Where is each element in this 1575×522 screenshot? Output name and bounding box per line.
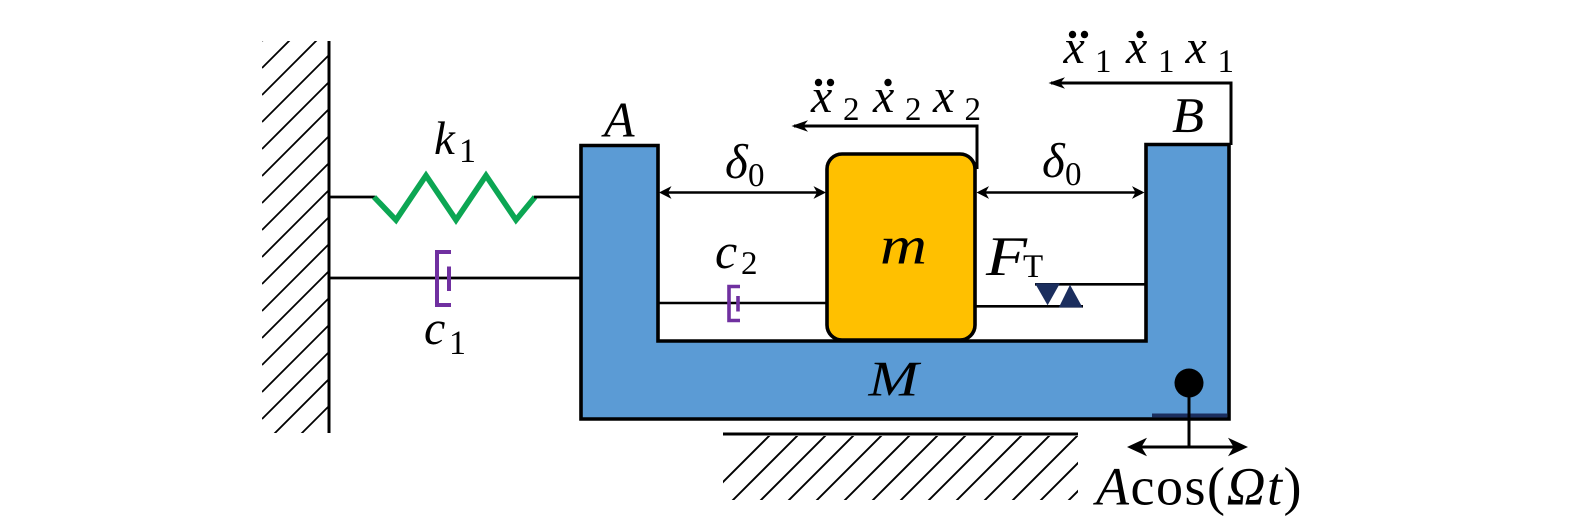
svg-text:m: m [880, 216, 927, 276]
wall hatching (left fixed wall) [262, 0, 342, 500]
svg-text:2: 2 [965, 92, 982, 128]
svg-text:δ: δ [1042, 133, 1066, 188]
svg-text:x: x [932, 70, 954, 123]
excitation double arrow [1132, 446, 1243, 449]
svg-text:0: 0 [1065, 157, 1082, 193]
svg-text:2: 2 [905, 92, 922, 128]
spring k1 [374, 176, 535, 221]
wire wall A inner to damper c2 to mass [658, 302, 827, 305]
axis x2 arrow [794, 126, 977, 169]
svg-text:x: x [1125, 21, 1147, 74]
wire from spring to wall A [534, 196, 582, 199]
right gap arrow delta0 [979, 191, 1142, 194]
ground hatching [700, 431, 1194, 505]
svg-text:Acos(Ωt): Acos(Ωt) [1093, 457, 1303, 517]
svg-text:1: 1 [1158, 44, 1175, 80]
svg-text:x: x [1185, 21, 1207, 74]
svg-text:x: x [810, 70, 832, 123]
friction upper wire to wall B [1035, 283, 1146, 286]
navy line on base bottom right [1152, 414, 1227, 418]
damper c2 [729, 287, 740, 321]
svg-text:1: 1 [1095, 44, 1112, 80]
svg-text:k: k [434, 113, 456, 165]
svg-text:c: c [715, 223, 737, 279]
svg-text:0: 0 [748, 158, 765, 194]
svg-text:2: 2 [843, 92, 860, 128]
axis x1 arrow [1051, 83, 1231, 145]
svg-text:1: 1 [449, 325, 466, 362]
friction lower wire from mass [975, 305, 1083, 308]
svg-text:F: F [985, 226, 1028, 288]
svg-text:1: 1 [459, 133, 476, 170]
friction down triangle [1035, 283, 1060, 305]
wire from wall to spring [329, 196, 375, 199]
ground line [723, 433, 1078, 436]
svg-text:A: A [601, 92, 635, 148]
svg-text:c: c [424, 302, 445, 355]
excitation stem [1188, 383, 1191, 447]
channel mass M (blue U-shaped block) [581, 145, 1229, 420]
wire wall to damper c1 and on to wall A [329, 277, 582, 280]
svg-text:δ: δ [725, 134, 749, 189]
mass m (orange rounded block) [827, 154, 975, 340]
svg-text:1: 1 [1218, 44, 1235, 80]
damper c1 [437, 252, 451, 305]
svg-text:x: x [1063, 21, 1085, 74]
svg-text:B: B [1172, 87, 1204, 143]
labels xddot2 xdot2 x2 [810, 70, 954, 123]
svg-text:M: M [867, 351, 921, 407]
svg-text:x: x [872, 70, 894, 123]
svg-text:T: T [1023, 249, 1043, 285]
labels xddot1 xdot1 x1 [1063, 21, 1207, 74]
left gap arrow delta0 [662, 191, 823, 194]
wall line [328, 41, 331, 433]
svg-text:2: 2 [741, 246, 758, 282]
friction up triangle [1059, 285, 1083, 308]
pivot dot [1175, 369, 1204, 398]
